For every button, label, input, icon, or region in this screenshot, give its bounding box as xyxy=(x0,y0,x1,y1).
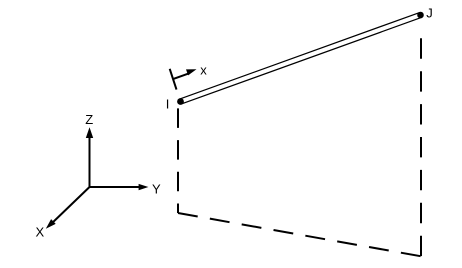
svg-text:x: x xyxy=(200,63,207,78)
local axis tick at I xyxy=(170,69,177,90)
dashed projection line below J xyxy=(420,38,422,256)
svg-text:X: X xyxy=(36,224,45,239)
svg-text:Z: Z xyxy=(85,112,93,127)
svg-text:J: J xyxy=(426,5,433,20)
global triad Z axis xyxy=(89,136,91,187)
dashed projection bottom line xyxy=(178,213,421,256)
wire element tube upper line xyxy=(180,13,420,100)
global triad Y axis xyxy=(90,186,141,188)
node I xyxy=(177,98,184,105)
svg-text:Y: Y xyxy=(152,182,161,197)
local x axis arrow xyxy=(173,73,190,79)
global triad X axis xyxy=(53,187,90,222)
svg-text:I: I xyxy=(166,97,170,112)
dashed projection line below I xyxy=(177,108,179,213)
wire element tube lower line xyxy=(181,17,421,104)
node J xyxy=(417,12,424,19)
